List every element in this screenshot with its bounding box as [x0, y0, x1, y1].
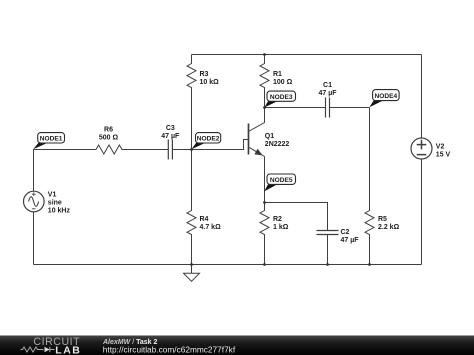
svg-text:Q1: Q1 [265, 133, 274, 140]
svg-text:10 kHz: 10 kHz [48, 207, 71, 214]
svg-text:sine: sine [48, 199, 62, 206]
svg-text:http://circuitlab.com/c62mmc27: http://circuitlab.com/c62mmc277f7kf [103, 344, 236, 354]
svg-text:47 µF: 47 µF [161, 133, 180, 140]
svg-text:R3: R3 [200, 71, 209, 78]
svg-text:R2: R2 [273, 216, 282, 223]
svg-text:NODE5: NODE5 [270, 177, 293, 184]
svg-text:2N2222: 2N2222 [265, 141, 290, 148]
svg-text:NODE3: NODE3 [270, 94, 293, 101]
svg-text:V1: V1 [48, 191, 57, 198]
svg-text:V2: V2 [436, 143, 445, 150]
svg-text:C2: C2 [341, 229, 350, 236]
svg-text:R6: R6 [104, 127, 113, 134]
svg-text:R5: R5 [378, 216, 387, 223]
svg-text:10 kΩ: 10 kΩ [200, 79, 220, 86]
svg-text:47 µF: 47 µF [318, 90, 337, 97]
svg-text:500 Ω: 500 Ω [99, 135, 119, 142]
svg-text:100 Ω: 100 Ω [273, 79, 293, 86]
svg-text:LAB: LAB [55, 345, 81, 355]
svg-text:4.7 kΩ: 4.7 kΩ [200, 224, 222, 231]
svg-text:NODE1: NODE1 [40, 136, 63, 143]
svg-text:NODE2: NODE2 [197, 136, 220, 143]
svg-text:47 µF: 47 µF [341, 237, 360, 244]
svg-text:15 V: 15 V [436, 151, 451, 158]
svg-text:C1: C1 [323, 82, 332, 89]
svg-text:C3: C3 [166, 125, 175, 132]
svg-text:R1: R1 [273, 71, 282, 78]
svg-text:2.2 kΩ: 2.2 kΩ [378, 224, 400, 231]
svg-text:NODE4: NODE4 [374, 93, 397, 100]
svg-text:R4: R4 [200, 216, 209, 223]
svg-text:1 kΩ: 1 kΩ [273, 224, 289, 231]
